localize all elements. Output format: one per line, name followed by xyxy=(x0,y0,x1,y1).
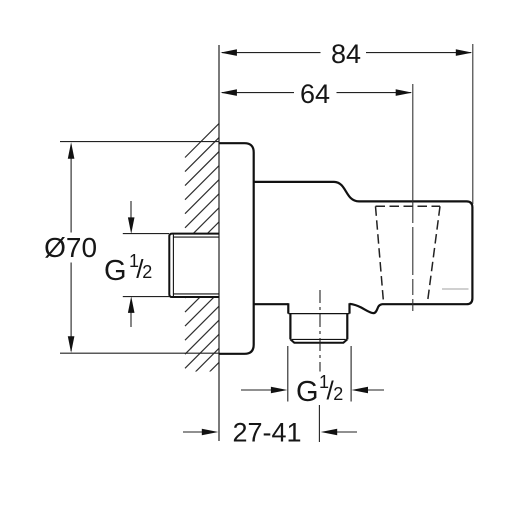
dimension G1/2 (wall thread) xyxy=(123,201,169,327)
svg-text:Ø70: Ø70 xyxy=(44,232,97,263)
wall-side male thread G1/2 (left nipple) xyxy=(169,234,219,297)
dimension 27-41 xyxy=(183,431,357,433)
svg-text:27-41: 27-41 xyxy=(232,418,301,448)
dimension Ø70: extension lines xyxy=(60,142,219,354)
svg-text:2: 2 xyxy=(333,384,343,404)
svg-text:G: G xyxy=(296,376,319,408)
bottom outlet G1/2 nipple xyxy=(288,303,349,343)
hidden slot line (faint) xyxy=(442,288,469,290)
svg-text:64: 64 xyxy=(300,79,330,109)
body bottom edge between flange and outlet xyxy=(254,303,289,305)
centre line of holder cone / 64 extension line xyxy=(412,84,414,207)
svg-text:2: 2 xyxy=(142,262,152,282)
body outline: top edge, right side, bottom edge with throat dip xyxy=(254,182,473,313)
dimension 84 xyxy=(222,52,471,54)
svg-text:84: 84 xyxy=(331,39,361,69)
hidden cone of handshower holder (dashed) xyxy=(376,206,441,303)
dimension 64 xyxy=(222,92,411,94)
svg-text:G: G xyxy=(104,255,127,287)
escutcheon flange (Ø70) xyxy=(219,143,254,354)
84 extension line xyxy=(472,44,474,204)
centre line of bottom outlet (dash-dot) xyxy=(319,290,321,372)
wall hatching (section lines) xyxy=(185,124,219,397)
wall surface line xyxy=(218,45,220,441)
dimension G1/2 (bottom outlet) xyxy=(241,346,384,402)
